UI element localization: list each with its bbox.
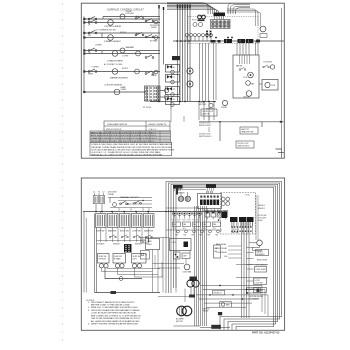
mid box M4 — [214, 245, 221, 258]
svg-text:LAMP: LAMP — [121, 86, 127, 89]
wire to motor connector — [158, 289, 191, 303]
labels right of DOC — [258, 204, 267, 222]
svg-text:BRN CONNECTED CONTROL B. 2 CM: BRN CONNECTED CONTROL B. 2 CM PROBLEM ON — [91, 315, 141, 317]
notes text block — [88, 301, 141, 326]
svg-text:R REAR: R REAR — [114, 258, 121, 261]
svg-text:WIRE GN-L TO BE FASTENED SOLDE: WIRE GN-L TO BE FASTENED SOLDERING LUGS — [91, 306, 138, 309]
neutral wire upper — [108, 197, 152, 199]
control area dashed box — [188, 17, 258, 44]
control box B3 — [166, 87, 180, 97]
load L3 (surface element) — [104, 35, 121, 43]
wire drops transformer row to switch boxes — [101, 228, 149, 243]
rung 6 wire — [84, 51, 160, 54]
svg-text:ALL LEADS SECURED AWAY FROM SH: ALL LEADS SECURED AWAY FROM SHARP EDGES — [91, 320, 140, 323]
connector block CB1 on bus — [224, 39, 232, 43]
bus wire across top panel — [173, 40, 284, 42]
svg-text:L FRONT ELEMENT: L FRONT ELEMENT — [104, 26, 122, 28]
svg-text:DOOR LOCK: DOOR LOCK — [199, 134, 211, 136]
svg-text:BEFORE DOWN TO THE UNIT AS COD: BEFORE DOWN TO THE UNIT AS CODED — [91, 304, 131, 307]
DOC control box (dashed) — [221, 193, 256, 235]
svg-text:SWITCH NO.3: SWITCH NO.3 — [238, 146, 250, 148]
terminal block TB1 — [145, 86, 161, 101]
surface switch box SB1 — [98, 254, 110, 264]
svg-text:N.O.: N.O. — [213, 228, 217, 230]
stepped interconnect wires bottom right — [197, 285, 269, 316]
P2 pin drops to bus — [165, 209, 218, 213]
load L7 (oven lamp) — [114, 86, 126, 95]
aux box below-left of M1 — [140, 251, 149, 260]
lamp circles right of TB1 — [160, 88, 169, 99]
load L5 — [107, 51, 140, 63]
svg-text:A-1 CONTACT CLOSED: A-1 CONTACT CLOSED — [104, 63, 123, 66]
harness link wire — [176, 189, 206, 191]
svg-text:WARMER: WARMER — [126, 46, 135, 49]
svg-text:RELAY CONTACTS: RELAY CONTACTS — [149, 123, 167, 126]
svg-text:ELEMENT: ELEMENT — [248, 289, 256, 291]
bus wire mid panel — [150, 101, 216, 103]
right element R1 — [150, 20, 158, 29]
fan circle FC1 — [183, 264, 192, 273]
svg-text:SINGLE: SINGLE — [135, 244, 142, 246]
svg-text:REL: REL — [193, 224, 196, 226]
svg-text:R REAR ELEMENT: R REAR ELEMENT — [104, 40, 121, 43]
svg-text:RELAY 1: RELAY 1 — [258, 204, 265, 207]
svg-text:L: L — [260, 27, 261, 29]
connector block CB2 on bus — [238, 39, 246, 43]
element circles under SB1 — [99, 263, 108, 268]
blower motor dark cluster — [187, 277, 199, 288]
switch SW-B blade — [120, 201, 128, 205]
switch SW-C blade — [134, 201, 142, 205]
labels row surf units — [97, 244, 142, 246]
svg-text:R FRONT: R FRONT — [126, 13, 135, 15]
svg-text:PROBE: PROBE — [221, 107, 228, 109]
svg-text:BAKE 30 125 240 N.O X 2-3 N.C: BAKE 30 125 240 N.O X 2-3 N.C X 5-6 X N.… — [91, 131, 156, 134]
svg-text:CLEAN 30 125 240 N.O X 2-3 N.C: CLEAN 30 125 240 N.O X 2-3 N.C X 5-6 X N… — [91, 137, 157, 140]
clock circles cluster — [221, 197, 229, 205]
svg-text:2350W: 2350W — [151, 27, 157, 29]
right box bake element — [256, 250, 269, 257]
right label rows — [255, 259, 268, 266]
legend table header — [104, 121, 170, 131]
rung 8 wire (oven lamp) — [84, 91, 146, 93]
right box lower — [254, 288, 267, 293]
switch S10 — [88, 69, 97, 76]
DOC pin cluster under bars — [231, 222, 252, 234]
label 120V — [108, 192, 118, 196]
aux label BA3 — [203, 308, 210, 312]
svg-text:THE RELAY CONTACTS ARE SHOWN I: THE RELAY CONTACTS ARE SHOWN IN THE OFF … — [91, 146, 172, 149]
svg-text:MOTOR: MOTOR — [199, 104, 207, 106]
svg-text:SWITCH NO.2: SWITCH NO.2 — [199, 136, 211, 138]
dark connector block P2 — [198, 194, 222, 209]
door lock box 3 — [236, 141, 254, 148]
motor connector dark — [189, 288, 195, 298]
element circles under SB3 — [132, 264, 141, 268]
switch S9 — [145, 55, 154, 58]
T1 aux circles — [217, 213, 220, 221]
nested harness loop paths — [166, 182, 282, 330]
svg-text:DISCONNECT RANGE FROM POWER SU: DISCONNECT RANGE FROM POWER SUPPLY — [91, 301, 135, 304]
control box B4 — [166, 97, 180, 107]
switch S5 — [88, 30, 97, 37]
svg-text:REL: REL — [183, 224, 186, 226]
oven control box U1 — [233, 55, 259, 99]
svg-text:BROIL ELEM: BROIL ELEM — [257, 259, 268, 261]
anti-tip box — [240, 127, 258, 134]
svg-text:CODE: BK BLACK WH WHITE RD RED: CODE: BK BLACK WH WHITE RD RED BU BLUE — [91, 312, 137, 315]
right connector wires — [247, 248, 254, 290]
rung 3 wire — [84, 32, 160, 34]
vertical wire bundle center — [195, 206, 207, 326]
svg-text:P4 CONN: P4 CONN — [231, 232, 239, 234]
svg-text:OVEN: OVEN — [147, 241, 153, 243]
svg-text:LIGHT: LIGHT — [147, 244, 153, 246]
wire stubs lower right — [171, 100, 284, 158]
mid box M1 — [146, 239, 160, 250]
small relay contact circles row — [186, 34, 233, 42]
aux box above M1 — [141, 238, 149, 244]
relay bank dark bars — [230, 217, 254, 227]
label door lock switch 1 — [199, 123, 211, 128]
wire harness arcs to connector P1 — [167, 3, 250, 14]
switch S8 — [88, 48, 97, 55]
right box conv element — [255, 267, 267, 273]
label lock motor — [199, 102, 207, 106]
svg-text:RELAY: RELAY — [203, 310, 209, 313]
rung 4 wire — [84, 33, 160, 38]
wire bundle verticals right of boxes — [200, 43, 217, 102]
svg-text:REL: REL — [203, 224, 206, 226]
switch label 9 OPEN — [92, 67, 100, 69]
svg-text:THERMAL CUTOUTS: THERMAL CUTOUTS — [120, 196, 139, 199]
connector block CB3 on bus — [246, 39, 254, 43]
svg-text:NOTE 3: NOTE 3 — [120, 32, 126, 34]
wire vertical bus V2 — [163, 7, 164, 65]
left supply rail — [83, 17, 85, 94]
svg-text:ELEMENT: ELEMENT — [257, 254, 265, 256]
dark connector P3 — [124, 244, 132, 253]
wire bundle verticals — [177, 5, 191, 102]
load L1 (surface element) — [120, 11, 135, 19]
svg-text:REL: REL — [213, 224, 216, 226]
svg-text:BAKE RELAY: BAKE RELAY — [216, 243, 227, 246]
connector blobs small on bus — [211, 40, 261, 43]
svg-text:CONV ELEM: CONV ELEM — [256, 269, 267, 271]
component rect elements row mid — [205, 211, 228, 220]
svg-text:CF: CF — [173, 99, 175, 101]
legend notes box — [90, 142, 175, 156]
svg-text:DEPLETED PLEASE RETURN DIAGRAM: DEPLETED PLEASE RETURN DIAGRAM TO RANGE — [91, 309, 140, 312]
power cord plug symbol — [93, 196, 104, 212]
svg-text:CODES: NO SECONDS, 4 SECONDS B: CODES: NO SECONDS, 4 SECONDS BROIL ONLY,… — [91, 143, 172, 146]
pilot circles right of boxes — [187, 68, 193, 87]
svg-text:DOC: DOC — [246, 195, 251, 197]
svg-text:2 OPEN: 2 OPEN — [122, 56, 129, 58]
svg-text:BROIL RELAY: BROIL RELAY — [216, 247, 228, 250]
extra harness horizontals — [97, 208, 199, 241]
component rects row mid — [173, 222, 221, 230]
DOC side verticals — [256, 195, 258, 240]
svg-text:LEFT: LEFT — [133, 259, 137, 261]
svg-text:L2 FEED: L2 FEED — [95, 45, 103, 47]
third component row — [166, 230, 222, 236]
svg-text:N.O.: N.O. — [183, 228, 187, 230]
svg-text:VERIFY PROPER OPERATION AFTER: VERIFY PROPER OPERATION AFTER SERVICING — [91, 323, 138, 326]
harness dark connector D1 — [173, 185, 183, 191]
svg-text:SURF SW: SURF SW — [96, 230, 105, 232]
component circles row mid — [172, 212, 201, 222]
svg-text:SWITCH POSITION: SWITCH POSITION — [106, 129, 122, 131]
door switch DS1 — [263, 62, 275, 70]
svg-text:RELAY K1: RELAY K1 — [214, 292, 222, 295]
svg-text:P1 PLUG: P1 PLUG — [143, 107, 152, 109]
load L4 — [120, 46, 135, 53]
svg-text:IGN IGN: IGN IGN — [178, 193, 185, 195]
title: SURFACE CONTROL CIRCUIT — [107, 7, 144, 11]
wire U1 to U2 — [259, 83, 262, 85]
switch S11 — [145, 71, 154, 75]
label door lock switch 2 — [199, 134, 211, 139]
svg-text:2350W: 2350W — [126, 11, 132, 13]
svg-text:3 WIRE: 3 WIRE — [108, 194, 115, 196]
switch S1 (surface unit) — [88, 16, 97, 23]
rung 2 wire — [84, 22, 160, 24]
right element R3 — [151, 70, 158, 77]
svg-text:COOL: COOL — [243, 77, 248, 79]
control box B2 — [166, 75, 180, 84]
svg-text:BRACKET SW: BRACKET SW — [242, 131, 254, 134]
svg-text:SINGLE: SINGLE — [113, 244, 120, 246]
surface switch box SB2 — [113, 254, 126, 264]
svg-text:WRM: WRM — [88, 74, 93, 76]
wire loop lower left — [105, 268, 142, 280]
left inner verticals — [84, 212, 86, 293]
control box B1 — [166, 65, 180, 74]
svg-text:CONV SW: CONV SW — [132, 230, 141, 232]
mid box M2 with dark insert — [170, 239, 192, 251]
thermal switch box TS1 — [172, 56, 180, 60]
switch S4 — [88, 20, 97, 27]
pin grid J2 — [206, 31, 211, 38]
bottom panel border (oven control circuit) — [81, 178, 284, 330]
svg-text:L1 TO SURFACE UNIT SW: L1 TO SURFACE UNIT SW — [95, 28, 116, 31]
right column: broil circle — [249, 240, 262, 253]
igniter symbols IG1 IG2 — [176, 189, 191, 202]
svg-text:NOTE 2: NOTE 2 — [122, 68, 128, 70]
harness dark connector D2 — [206, 184, 216, 191]
DOC pin labels — [231, 229, 239, 234]
latch box U2 — [262, 80, 278, 91]
rung 7 wire — [84, 71, 160, 73]
wire vertical bus V1 — [158, 5, 159, 102]
right box clean sw — [254, 278, 267, 285]
element circles under SB2 — [115, 264, 124, 268]
oven light OL1 — [260, 26, 267, 37]
svg-text:WARMER ELEMENT: WARMER ELEMENT — [110, 76, 129, 79]
svg-text:RELAY 2: RELAY 2 — [258, 207, 265, 210]
svg-text:USE STORE TERMINAL FOR UNIVERS: USE STORE TERMINAL FOR UNIVERSAL MOTOR L… — [91, 317, 141, 320]
upper wiring mesh — [110, 200, 152, 212]
svg-text:BROIL 30 125 240 N.O X 2-3 N.C: BROIL 30 125 240 N.O X 2-3 N.C X 5-6 X N… — [91, 135, 157, 137]
load L6 (warmer element) — [110, 69, 139, 80]
svg-text:9 OPEN: 9 OPEN — [92, 67, 100, 69]
sensor circle SN1 — [206, 103, 214, 110]
svg-text:MOTOR: MOTOR — [203, 114, 210, 116]
dark cluster bottom — [200, 325, 230, 329]
svg-text:L REAR ELEMENT: L REAR ELEMENT — [107, 60, 124, 63]
svg-text:WARM: WARM — [151, 74, 157, 77]
svg-text:LOCK SW: LOCK SW — [255, 283, 263, 285]
small terminals above P2 — [206, 191, 212, 193]
sensor circle SN2 — [221, 100, 228, 108]
svg-text:DOOR UNLOCKED AND ALL CIRCUITS: DOOR UNLOCKED AND ALL CIRCUITS FULLY DE-… — [91, 148, 175, 151]
junction blob dark — [218, 312, 222, 315]
part number text — [252, 331, 280, 334]
rung 1 wire — [84, 17, 160, 20]
notes heading — [87, 300, 96, 302]
transformer T1 dark — [222, 212, 228, 219]
svg-text:PART NO. 8101P407-60: PART NO. 8101P407-60 — [252, 331, 280, 334]
power supply terminals L1 N L2 — [93, 192, 105, 196]
load L2 (bake element) — [104, 20, 122, 28]
aux box BA2 with circle — [219, 302, 231, 308]
misc ladder annotations — [95, 15, 139, 86]
svg-text:BROIL SW: BROIL SW — [120, 230, 129, 232]
aux box BA1 — [213, 290, 225, 295]
switch S3 (infinite switch) — [145, 18, 154, 22]
svg-text:CONV RELAY: CONV RELAY — [216, 251, 228, 254]
svg-text:MOTOR: MOTOR — [176, 321, 183, 323]
component pair M3 — [174, 252, 191, 259]
junction dots bottom right — [209, 285, 247, 300]
svg-text:P1 P2: P1 P2 — [192, 20, 197, 22]
transformer windings group — [96, 212, 155, 233]
svg-text:L1-B 2-3 N.O. / L2 : CLEAN CIR: L1-B 2-3 N.O. / L2 : CLEAN CIRCUIT 5-6 N… — [91, 151, 161, 154]
indicator light strip — [211, 20, 231, 29]
scan noise dots (left margin) — [62, 3, 63, 340]
svg-text:DOOR SW: DOOR SW — [264, 62, 273, 64]
svg-text:OVEN LAMP SWITCH: OVEN LAMP SWITCH — [107, 123, 128, 126]
right label rows RC2 — [249, 296, 263, 300]
label above table — [143, 107, 152, 109]
svg-text:CONV FAN: CONV FAN — [183, 271, 192, 274]
interconnect drops mid-low — [153, 251, 191, 293]
wire harness to lamp cluster — [227, 9, 261, 26]
motor bottom wire — [174, 325, 201, 327]
right column crossing wires — [236, 265, 268, 294]
svg-text:HL: HL — [173, 67, 175, 69]
mid-left verticals — [153, 238, 164, 293]
svg-text:OVEN SENSOR: OVEN SENSOR — [255, 265, 268, 267]
svg-text:A-2: A-2 — [136, 32, 139, 35]
wire drops from bus — [237, 8, 282, 150]
svg-text:OVEN: OVEN — [121, 89, 127, 91]
surface switch blade row — [109, 235, 152, 238]
switch SW-A above bus — [110, 198, 116, 207]
switch S6 (limiter) — [135, 32, 144, 35]
svg-text:MOTOR: MOTOR — [244, 97, 251, 99]
svg-text:BAKE SW: BAKE SW — [108, 229, 116, 232]
main bus wire bottom panel — [83, 211, 222, 213]
svg-text:LIGHT: LIGHT — [258, 220, 264, 222]
switch S2 (limiter) — [135, 16, 144, 20]
svg-text:DOOR LOCK: DOOR LOCK — [199, 123, 211, 125]
svg-text:L1-B L1-C: L1-B L1-C — [149, 129, 157, 131]
vertical wire bundle right — [242, 222, 250, 318]
interlock wire — [199, 121, 284, 123]
motor MT1 double circle — [176, 306, 192, 323]
svg-text:RT REAR: RT REAR — [150, 39, 158, 42]
element drop wires lower left — [102, 255, 164, 277]
lock motor box — [201, 109, 217, 116]
wire drops below mid bus — [199, 102, 214, 121]
labels left of bundle — [216, 243, 242, 258]
legend table body — [90, 131, 171, 143]
connector P1 (dark bar) — [214, 13, 226, 20]
switch S7 — [145, 34, 154, 37]
surface switch box SB3 — [132, 254, 147, 264]
svg-text:SWITCH NO.1: SWITCH NO.1 — [199, 125, 211, 127]
left drop wires — [95, 214, 97, 293]
right element R2 — [150, 36, 158, 43]
svg-text:DOUBLE: DOUBLE — [97, 244, 105, 246]
pilot pair circles — [192, 20, 203, 27]
bottom-left junction wire — [95, 291, 161, 294]
top panel border (surface control circuit) — [81, 3, 284, 158]
svg-text:R FRONT: R FRONT — [99, 259, 107, 261]
label thermal cutout — [120, 196, 139, 199]
svg-text:TO CHASSIS: TO CHASSIS — [249, 297, 260, 300]
right component box RC1 — [247, 288, 261, 293]
rung 5 wire — [84, 50, 160, 52]
svg-text:UNITS AT ALL / 30 : OVEN CYCLI: UNITS AT ALL / 30 : OVEN CYCLING ON 240 … — [91, 154, 163, 157]
indicator lamps PL1 PL2 (dark) — [198, 15, 206, 21]
svg-text:A-1: A-1 — [136, 15, 139, 18]
